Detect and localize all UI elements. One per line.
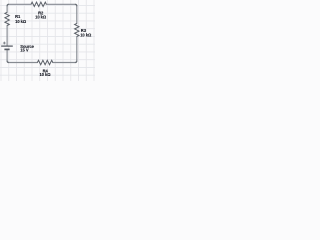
svg-text:10 kΩ: 10 kΩ xyxy=(80,32,92,37)
svg-text:10 kΩ: 10 kΩ xyxy=(40,72,52,77)
svg-text:10 kΩ: 10 kΩ xyxy=(35,14,47,19)
svg-text:10 kΩ: 10 kΩ xyxy=(15,19,27,24)
svg-text:15 V: 15 V xyxy=(20,48,29,53)
